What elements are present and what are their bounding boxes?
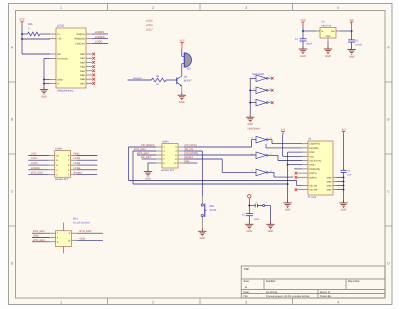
svg-text:Rst: Rst xyxy=(57,53,61,56)
svg-text:GND: GND xyxy=(300,55,306,58)
IC LCM1 LCD 12864 module xyxy=(50,25,92,93)
net label LCDRW xyxy=(95,36,105,39)
svg-text:CON2: CON2 xyxy=(55,148,63,151)
ground xyxy=(339,200,347,211)
wire xyxy=(268,172,293,177)
node junction xyxy=(343,184,345,186)
svg-text:LCD7: LCD7 xyxy=(146,28,153,31)
svg-text:DI(CMD): DI(CMD) xyxy=(309,147,318,150)
svg-text:LCD6: LCD6 xyxy=(146,24,153,27)
net label KBL xyxy=(185,160,190,163)
svg-text:Beeper: Beeper xyxy=(74,172,83,175)
svg-text:VCC: VCC xyxy=(19,18,25,22)
wire xyxy=(343,134,345,170)
jumper J1 xyxy=(255,201,268,208)
svg-text:3V3: 3V3 xyxy=(341,129,346,132)
net label LCD5 xyxy=(146,20,153,23)
wire xyxy=(78,239,104,241)
svg-text:CS(DAT3): CS(DAT3) xyxy=(309,143,320,146)
wire xyxy=(129,146,157,148)
svg-text:LCM1: LCM1 xyxy=(57,25,65,28)
power port 3V3 (SD logic) xyxy=(281,129,286,135)
svg-text:C: C xyxy=(11,190,14,194)
net label LCDE xyxy=(74,167,81,170)
no-connect X on DB1 xyxy=(92,57,95,60)
power port 3V3 (regulator out) xyxy=(349,19,354,31)
svg-text:LCDRS: LCDRS xyxy=(31,167,40,170)
svg-text:GND: GND xyxy=(33,235,39,238)
ground xyxy=(283,200,291,211)
voltage regulator U2 MIC5219 xyxy=(317,21,340,42)
no-connect X on DB5 xyxy=(92,74,95,77)
wire xyxy=(351,31,353,40)
capacitor C4 xyxy=(341,170,352,177)
node junction xyxy=(343,189,345,191)
svg-text:GND: GND xyxy=(41,95,47,98)
capacitor C5 xyxy=(242,213,260,221)
svg-text:1: 1 xyxy=(60,6,62,10)
wire xyxy=(133,150,156,152)
svg-text:Sheet of: Sheet of xyxy=(320,291,330,294)
wire xyxy=(77,164,98,166)
net label BTN_ENC xyxy=(80,230,92,233)
svg-text:Date:: Date: xyxy=(244,291,250,294)
wire xyxy=(201,151,203,196)
net label GND xyxy=(74,153,80,156)
svg-text:PB1: PB1 xyxy=(210,205,215,208)
svg-text:Header 5X2: Header 5X2 xyxy=(55,178,69,181)
wire xyxy=(142,158,157,160)
node junction xyxy=(21,33,23,40)
wire xyxy=(268,102,271,104)
net label SD_DET xyxy=(141,156,152,159)
wire xyxy=(28,164,49,166)
svg-text:GND: GND xyxy=(309,151,314,154)
wire xyxy=(266,144,302,148)
svg-text:GND: GND xyxy=(341,209,347,212)
svg-text:File:: File: xyxy=(244,295,249,298)
net label Beeper xyxy=(74,172,83,175)
svg-text:EN1: EN1 xyxy=(73,218,78,221)
wire xyxy=(303,30,352,32)
node junction xyxy=(249,89,251,103)
svg-text:3: 3 xyxy=(245,300,247,304)
svg-text:74HC4049: 74HC4049 xyxy=(247,127,260,130)
net label BTN_EN1 xyxy=(33,230,45,233)
ground xyxy=(198,229,206,240)
svg-text:Rev:none: Rev:none xyxy=(348,280,360,283)
wire xyxy=(28,155,49,157)
svg-text:DO(DAT0): DO(DAT0) xyxy=(309,168,320,171)
svg-text:TF card: TF card xyxy=(308,196,317,199)
svg-text:EC11E1520402: EC11E1520402 xyxy=(73,221,90,224)
wire xyxy=(337,189,344,191)
svg-text:VCC: VCC xyxy=(179,39,185,42)
svg-text:BZ1: BZ1 xyxy=(187,68,192,71)
wire xyxy=(22,38,50,40)
svg-text:4: 4 xyxy=(337,300,339,304)
wire xyxy=(92,38,108,40)
no-connect X xyxy=(271,89,274,92)
net label BTN_EN2 xyxy=(137,152,149,155)
svg-text:SCLK(CLK): SCLK(CLK) xyxy=(309,160,321,163)
capacitor C2 xyxy=(348,40,363,47)
wire xyxy=(184,162,198,164)
svg-text:1uF: 1uF xyxy=(347,174,352,177)
wire xyxy=(92,33,108,35)
svg-text:MIC5219: MIC5219 xyxy=(322,24,332,27)
svg-text:LCDRW: LCDRW xyxy=(95,36,105,39)
svg-text:SD_WP: SD_WP xyxy=(309,189,318,192)
svg-text:GND: GND xyxy=(285,209,291,212)
wire xyxy=(148,163,156,172)
wire xyxy=(248,200,250,213)
svg-text:LCD5: LCD5 xyxy=(146,20,153,23)
net label GND xyxy=(80,237,86,240)
wire xyxy=(184,146,252,148)
node junction xyxy=(343,176,345,178)
power port VCC (regulator in) xyxy=(300,19,306,31)
svg-text:3V3: 3V3 xyxy=(281,129,286,132)
svg-text:LCDE: LCDE xyxy=(74,167,81,170)
svg-text:BTN_EN1: BTN_EN1 xyxy=(33,230,45,233)
header CON2 Header 5X2 xyxy=(49,148,77,182)
title block xyxy=(241,266,385,298)
wire xyxy=(252,140,257,147)
power port VCC (buzzer) xyxy=(179,39,185,56)
svg-text:GND: GND xyxy=(327,181,332,184)
buzzer BZ1 xyxy=(182,53,192,71)
svg-text:Drawn By:: Drawn By: xyxy=(320,295,332,298)
inverter gate U6C xyxy=(253,99,271,106)
wire xyxy=(288,151,303,153)
svg-text:E(SCLK): E(SCLK) xyxy=(75,42,85,45)
svg-text:1: 1 xyxy=(60,300,62,304)
node junction xyxy=(43,79,45,85)
net label BTN_EN2 xyxy=(33,239,45,242)
wire xyxy=(327,42,329,50)
ground xyxy=(266,222,274,233)
wire xyxy=(351,42,353,49)
net label LCDRS xyxy=(31,167,40,170)
svg-text:GND: GND xyxy=(179,101,185,104)
svg-text:DB5: DB5 xyxy=(80,74,85,77)
net label LCD7 xyxy=(146,28,153,31)
net label VCC xyxy=(31,153,37,156)
inverter gate U6B xyxy=(253,87,271,94)
wire xyxy=(92,42,108,44)
node junction xyxy=(343,181,345,183)
label 74HC4049 xyxy=(252,73,265,76)
svg-text:STOP: STOP xyxy=(210,209,217,212)
svg-text:GND: GND xyxy=(327,176,332,179)
svg-text:Out: Out xyxy=(331,30,335,33)
rotary encoder EN1 EC11 xyxy=(50,231,78,247)
svg-text:C: C xyxy=(387,190,390,194)
svg-text:LCD7: LCD7 xyxy=(31,157,38,160)
svg-text:GND: GND xyxy=(247,230,253,233)
wire xyxy=(249,205,255,207)
net label LCDRS xyxy=(95,31,104,34)
no-connect X on DB3 xyxy=(92,65,95,68)
label EN1 xyxy=(73,218,78,221)
net label LCD6 xyxy=(74,157,81,160)
wire xyxy=(44,59,50,90)
inverter gate U6A xyxy=(253,75,271,82)
wire xyxy=(166,79,177,81)
svg-text:BTN_ENC: BTN_ENC xyxy=(31,172,43,175)
net label LCD6 xyxy=(146,24,153,27)
wire xyxy=(268,140,302,144)
svg-text:BC547: BC547 xyxy=(184,79,192,82)
label EC11E1520402 xyxy=(73,221,90,224)
inverter gate U4A xyxy=(250,136,272,143)
power port 3V3 (C4) xyxy=(341,129,346,135)
node junction xyxy=(287,164,289,185)
svg-text:VCC: VCC xyxy=(309,155,314,158)
no-connect X on DB4 xyxy=(92,69,95,72)
ground xyxy=(245,222,253,233)
svg-text:GND: GND xyxy=(247,123,253,126)
svg-text:GND: GND xyxy=(327,189,332,192)
svg-text:12864(Module): 12864(Module) xyxy=(57,89,74,92)
resistor RRL xyxy=(28,23,41,36)
wire xyxy=(184,158,222,160)
wire xyxy=(40,33,50,35)
svg-text:GND: GND xyxy=(309,164,314,167)
ground xyxy=(40,87,48,98)
wire xyxy=(283,134,303,156)
svg-text:4: 4 xyxy=(337,6,339,10)
svg-text:GND: GND xyxy=(57,79,63,82)
no-connect X on DB2 xyxy=(92,61,95,64)
net label GND xyxy=(33,235,39,238)
no-connect X on DB0 xyxy=(92,53,95,56)
svg-text:GND: GND xyxy=(268,230,274,233)
wire xyxy=(129,147,303,185)
svg-text:Size: Size xyxy=(244,280,250,283)
no-connect X on (DAT1) xyxy=(295,172,298,175)
ground xyxy=(347,47,355,58)
net label RESET xyxy=(185,156,194,159)
svg-text:LCD5: LCD5 xyxy=(31,162,38,165)
svg-text:GND: GND xyxy=(326,35,331,38)
capacitor C1 xyxy=(295,38,313,45)
svg-text:RRL: RRL xyxy=(28,23,34,26)
inverter gate U4C xyxy=(251,169,272,176)
svg-text:1K: 1K xyxy=(156,83,159,86)
power port VCC (LCD pull-up) xyxy=(19,18,25,35)
wire xyxy=(77,174,98,176)
svg-text:Title: Title xyxy=(244,267,250,271)
svg-text:GND: GND xyxy=(74,153,80,156)
wire xyxy=(248,216,250,225)
svg-text:(DAT2): (DAT2) xyxy=(309,176,316,179)
ground xyxy=(324,46,332,57)
svg-text:GND: GND xyxy=(327,184,332,187)
wire xyxy=(77,155,98,157)
resistor R3 xyxy=(152,75,167,86)
wire xyxy=(265,206,271,225)
inverter gate U4B xyxy=(251,152,273,159)
net label PIC (SCK) xyxy=(185,144,197,147)
no-connect X on DB6 xyxy=(92,78,95,81)
wire xyxy=(184,154,256,156)
net label LCD4 xyxy=(74,162,81,165)
wire xyxy=(32,232,50,234)
no-connect X xyxy=(271,101,274,104)
wire xyxy=(22,33,28,35)
wire xyxy=(302,31,304,39)
wire xyxy=(201,196,203,204)
ground xyxy=(246,115,254,126)
wire xyxy=(78,232,104,234)
svg-text:100uF: 100uF xyxy=(355,43,362,46)
svg-text:DB3: DB3 xyxy=(80,66,85,69)
svg-text:A: A xyxy=(245,285,247,289)
net label SD_CS xyxy=(185,148,194,151)
transistor Q1 BC547 xyxy=(177,75,192,95)
svg-text:Number: Number xyxy=(266,280,276,283)
node junction xyxy=(248,205,250,207)
svg-text:DB4: DB4 xyxy=(80,70,85,73)
svg-text:P.S-mode: P.S-mode xyxy=(57,58,68,61)
svg-text:BTN_ENC: BTN_ENC xyxy=(80,230,92,233)
wire xyxy=(288,152,303,203)
net label Beeper xyxy=(134,77,143,80)
net label LCD7 xyxy=(31,157,38,160)
wire xyxy=(137,154,156,156)
net label BTN_ENC xyxy=(31,172,43,175)
svg-text:GND: GND xyxy=(325,55,331,58)
svg-text:RS(CS): RS(CS) xyxy=(77,33,85,36)
power port 5V (circle) xyxy=(248,195,251,201)
no-connect X on SD_WP xyxy=(295,188,298,191)
wire xyxy=(181,64,183,75)
svg-text:K-: K- xyxy=(57,83,60,86)
svg-text:VCC: VCC xyxy=(31,153,37,156)
wire xyxy=(268,77,271,79)
svg-text:VCC: VCC xyxy=(300,19,306,22)
svg-text:SD_CD: SD_CD xyxy=(309,184,317,187)
wire xyxy=(184,150,202,152)
wire xyxy=(77,169,98,171)
svg-text:6/14/2013: 6/14/2013 xyxy=(266,291,278,294)
svg-text:R/W(SID): R/W(SID) xyxy=(75,38,85,41)
net label LCDE xyxy=(95,41,102,44)
no-connect X on DB7 xyxy=(92,82,95,85)
no-connect X xyxy=(271,77,274,80)
svg-text:DB2: DB2 xyxy=(80,61,85,64)
IC U3 TF card socket xyxy=(298,138,337,199)
wire xyxy=(222,159,256,172)
header KNP1 ICSP Header 5X2 xyxy=(156,140,184,172)
label 74HC4049 xyxy=(247,127,260,130)
svg-text:Beeper: Beeper xyxy=(134,77,143,80)
svg-text:Header 5X2: Header 5X2 xyxy=(161,169,175,172)
wire xyxy=(62,247,64,254)
net label PIC (MOSI) xyxy=(185,152,199,155)
wire xyxy=(294,168,302,170)
ground xyxy=(178,93,186,104)
svg-text:3: 3 xyxy=(245,6,247,10)
wire xyxy=(250,78,256,117)
wire xyxy=(337,184,344,186)
wire xyxy=(302,41,304,49)
wire xyxy=(22,34,50,54)
svg-text:BTN_EN2: BTN_EN2 xyxy=(33,239,45,242)
wire xyxy=(128,79,152,81)
wire xyxy=(28,174,49,176)
svg-text:LCD6: LCD6 xyxy=(74,157,81,160)
net label BTN_EN1 xyxy=(134,148,146,151)
wire xyxy=(32,241,50,243)
svg-text:DB6: DB6 xyxy=(80,78,85,81)
svg-text:D: D xyxy=(387,262,390,266)
svg-text:DB1: DB1 xyxy=(80,57,85,60)
wire xyxy=(62,223,64,231)
wire xyxy=(337,181,344,183)
wire xyxy=(201,217,203,232)
svg-text:LCDE: LCDE xyxy=(95,41,102,44)
svg-text:D: D xyxy=(11,262,14,266)
wire xyxy=(337,176,344,178)
svg-text:LCDRS: LCDRS xyxy=(95,31,104,34)
wire xyxy=(343,173,345,203)
wire xyxy=(268,155,302,160)
svg-text:3V3: 3V3 xyxy=(349,19,354,22)
svg-text:E:\proud project\..\OLCD contr: E:\proud project\..\OLCD controller.SchD… xyxy=(266,295,311,298)
wire xyxy=(133,151,288,184)
ground xyxy=(299,46,307,57)
node junction xyxy=(302,30,353,32)
svg-text:10uF: 10uF xyxy=(254,218,260,221)
svg-text:KNP1: KNP1 xyxy=(162,140,169,143)
svg-text:DB7: DB7 xyxy=(80,82,85,85)
svg-text:+5V: +5V xyxy=(57,38,62,41)
svg-text:(DAT1): (DAT1) xyxy=(309,172,316,175)
no-connect X on (DAT2) xyxy=(295,176,298,179)
svg-text:2: 2 xyxy=(152,300,154,304)
wire xyxy=(77,159,98,161)
svg-text:GND: GND xyxy=(349,55,355,58)
svg-text:100uF: 100uF xyxy=(306,42,313,45)
svg-text:GND: GND xyxy=(200,237,206,240)
svg-text:LCD4: LCD4 xyxy=(74,162,81,165)
svg-text:DB0: DB0 xyxy=(80,53,85,56)
svg-text:GND: GND xyxy=(145,177,151,180)
ground xyxy=(144,169,152,180)
wire xyxy=(268,89,271,91)
svg-text:2: 2 xyxy=(152,6,154,10)
net label LCD5 xyxy=(31,162,38,165)
svg-text:GND: GND xyxy=(80,237,86,240)
net label PIC (MISO) xyxy=(141,144,155,147)
wire xyxy=(28,159,49,161)
wire xyxy=(32,237,50,239)
wire xyxy=(28,169,49,171)
push button PB1 STOP xyxy=(201,204,216,218)
